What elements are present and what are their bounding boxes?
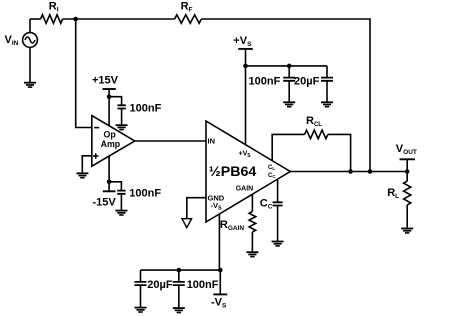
wire: RL to ground <box>406 205 408 228</box>
wire: 20uF cap to ground <box>140 285 142 307</box>
svg-text:100nF: 100nF <box>130 103 162 115</box>
ground (op-amp plus input) <box>76 172 88 178</box>
junction dot VOUT <box>405 169 410 174</box>
ground (100nF -15V) <box>115 210 127 216</box>
wire: +VS decoupling rail <box>246 65 328 67</box>
wire: rail down to -VS terminal <box>219 270 221 294</box>
ground (VIN) <box>24 82 36 88</box>
capacitor 20uF (+VS) plates <box>321 78 333 81</box>
svg-text:100nF: 100nF <box>187 279 219 291</box>
open triangle ground (GND pin) <box>182 219 192 228</box>
ground (RL) <box>401 228 413 234</box>
svg-text:100nF: 100nF <box>129 188 161 200</box>
wire: RCL left leg from PB64 top edge <box>272 134 304 160</box>
amplifier U2 PB64 triangle <box>206 121 290 222</box>
capacitor 100nF (+VS) plates <box>283 78 295 81</box>
wire: RCL right leg down to output node <box>328 134 351 171</box>
wire: rail down to 20uF cap <box>326 66 328 77</box>
junction dot 100nF +VS <box>287 64 292 69</box>
wire: RI to RF <box>63 18 175 20</box>
capacitor CC plates <box>273 202 283 205</box>
wire: +15V branch to 100nF cap <box>109 97 122 105</box>
capacitor 20uF (-VS) plates <box>135 282 147 285</box>
resistor RL <box>404 181 411 205</box>
capacitor 100nF (-VS) plates <box>173 282 185 285</box>
terminal bar -VS <box>213 293 227 295</box>
svg-text:CC: CC <box>268 173 276 179</box>
wire: +VS bar down to PB64 +Vs pin <box>245 49 247 144</box>
svg-text:IN: IN <box>208 137 216 146</box>
wire: cap bottom to ground <box>120 194 122 210</box>
resistor RCL <box>305 130 328 139</box>
wire: 100nF cap to ground <box>178 285 180 307</box>
op-amp minus mark <box>94 127 99 129</box>
svg-text:CL: CL <box>268 165 275 171</box>
terminal bar VOUT <box>400 158 416 160</box>
ground (100nF +15V) <box>116 124 128 130</box>
svg-text:½PB64: ½PB64 <box>209 164 256 180</box>
terminal bar +15V <box>103 88 116 90</box>
wire: VOUT bar to output line <box>406 159 408 171</box>
junction dot -VS rail terminal <box>218 268 223 273</box>
wire: op-amp output to PB64 IN pin <box>135 140 206 142</box>
op-amp U1 triangle <box>92 116 135 167</box>
wire: RGAIN to ground <box>251 232 253 252</box>
svg-text:Amp: Amp <box>101 139 121 149</box>
wire: +15V bar down to op-amp V+ pin <box>108 89 110 126</box>
source VIN sine <box>25 37 35 43</box>
wire: -VS decoupling rail <box>141 269 221 271</box>
wire: CC cap to ground <box>277 206 279 241</box>
capacitor 100nF (op-amp bottom) plates <box>117 191 125 194</box>
ground (20uF +VS) <box>321 101 333 107</box>
wire: PB64 GND pin to open ground <box>187 198 206 219</box>
wire: RF to feedback corner and down to output node <box>201 19 370 172</box>
svg-text:20µF: 20µF <box>294 76 320 88</box>
ground (RGAIN) <box>246 251 258 257</box>
wire: output line PB64 to RL <box>290 171 407 173</box>
capacitor 100nF (op-amp top) plates <box>117 105 125 108</box>
svg-text:20µF: 20µF <box>147 279 173 291</box>
svg-text:100nF: 100nF <box>249 76 281 88</box>
wire: PB64 -Vs pin down to -VS rail <box>218 214 220 270</box>
wire: rail down to 100nF cap <box>178 270 180 281</box>
wire: rail down to 100nF cap <box>288 66 290 77</box>
junction dot -VS rail 100nF <box>177 268 182 273</box>
ground (20uF -VS) <box>135 307 147 313</box>
svg-text:+15V: +15V <box>92 75 119 87</box>
junction dot feedback output <box>368 169 373 174</box>
wire: cap bottom to ground <box>121 109 123 125</box>
wire: rail down to 20uF cap <box>140 270 142 281</box>
wire: inverting node down from RI junction <box>76 19 92 128</box>
wire: PB64 CC pin down to CC cap <box>277 179 279 202</box>
junction dot -15V <box>107 180 112 185</box>
junction dot RCL output <box>348 169 353 174</box>
svg-text:GAIN: GAIN <box>236 185 254 192</box>
wire: 20uF cap to ground <box>326 81 328 102</box>
terminal bar -15V <box>103 190 116 192</box>
wire: PB64 GAIN pin down to RGAIN <box>251 194 253 212</box>
junction dot +VS rail <box>243 64 248 69</box>
source VIN circle <box>23 33 38 48</box>
svg-text:-15V: -15V <box>93 196 117 208</box>
junction dot RI/RF node <box>73 17 78 22</box>
resistor RI <box>41 15 63 24</box>
op-amp plus mark <box>93 153 99 159</box>
ground (100nF -VS) <box>173 307 185 313</box>
junction dot +15V <box>107 94 112 99</box>
wire: Vin circle top to rail <box>29 19 31 33</box>
wire: output node to RL <box>406 172 408 182</box>
resistor RGAIN <box>249 212 256 232</box>
ground (100nF +VS) <box>283 101 295 107</box>
resistor RF <box>175 15 202 24</box>
wire: 100nF cap to ground <box>288 81 290 102</box>
wire: top rail left (Vin to RI) <box>30 18 41 20</box>
wire: Vin circle bottom to ground <box>29 47 31 82</box>
wire: -15V branch to 100nF cap <box>109 182 121 190</box>
wire: op-amp V- pin down to junction <box>108 156 110 191</box>
wire: op-amp plus input to ground <box>82 156 92 173</box>
terminal bar +VS <box>238 48 253 50</box>
ground (CC cap) <box>272 241 284 247</box>
